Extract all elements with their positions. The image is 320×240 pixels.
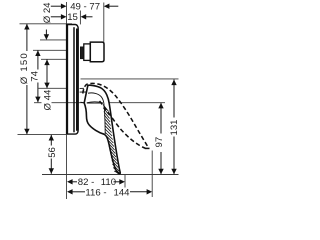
svg-text:15: 15 xyxy=(67,12,78,23)
svg-text:Ø 44: Ø 44 xyxy=(43,89,54,110)
svg-text:56: 56 xyxy=(47,147,58,158)
svg-text:131: 131 xyxy=(169,119,180,135)
svg-text:Ø 24: Ø 24 xyxy=(42,2,53,23)
svg-text:74: 74 xyxy=(29,70,40,81)
svg-text:97: 97 xyxy=(154,137,165,148)
svg-text:144: 144 xyxy=(114,187,131,198)
svg-text:116 -: 116 - xyxy=(85,187,106,198)
svg-text:49 - 77: 49 - 77 xyxy=(70,2,100,13)
